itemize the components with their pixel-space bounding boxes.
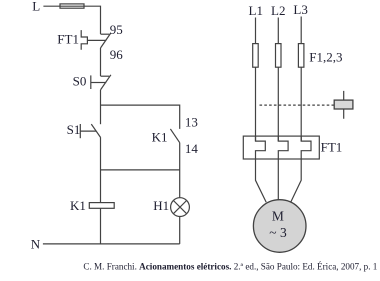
- svg-text:M: M: [272, 208, 284, 223]
- svg-text:N: N: [31, 237, 41, 252]
- svg-text:~ 3: ~ 3: [269, 225, 287, 240]
- svg-text:FT1: FT1: [321, 140, 343, 155]
- svg-text:L2: L2: [271, 3, 285, 18]
- svg-text:S0: S0: [73, 73, 87, 88]
- svg-text:L: L: [32, 0, 40, 14]
- svg-text:S1: S1: [67, 122, 81, 137]
- svg-text:C. M. Franchi. Acionamentos el: C. M. Franchi. Acionamentos elétricos. 2…: [83, 262, 377, 272]
- svg-text:K1: K1: [70, 198, 86, 213]
- svg-text:14: 14: [185, 141, 199, 156]
- svg-text:95: 95: [110, 22, 123, 37]
- svg-text:K1: K1: [152, 130, 168, 145]
- svg-text:F1,2,3: F1,2,3: [309, 50, 342, 65]
- svg-text:L1: L1: [249, 3, 263, 18]
- svg-text:96: 96: [110, 47, 124, 62]
- svg-text:13: 13: [185, 115, 198, 130]
- svg-text:FT1: FT1: [57, 32, 79, 47]
- svg-text:L3: L3: [293, 2, 307, 17]
- svg-text:H1: H1: [153, 198, 169, 213]
